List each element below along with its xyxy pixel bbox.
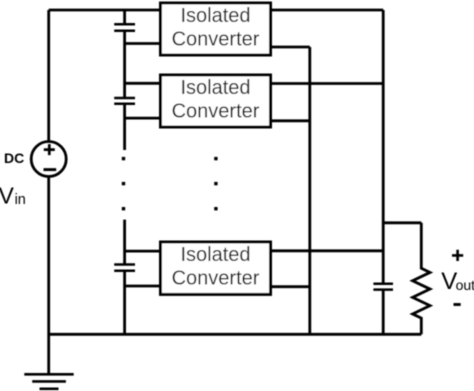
svg-text:Converter: Converter [172,268,260,290]
svg-text:Converter: Converter [172,29,260,51]
svg-text:Isolated: Isolated [180,244,250,266]
svg-text:out: out [456,277,474,293]
svg-text:V: V [0,183,15,209]
svg-text:Converter: Converter [172,101,260,123]
svg-text:Isolated: Isolated [180,5,250,27]
svg-text:DC: DC [4,150,24,166]
svg-text:in: in [15,192,26,208]
svg-text:Isolated: Isolated [180,77,250,99]
